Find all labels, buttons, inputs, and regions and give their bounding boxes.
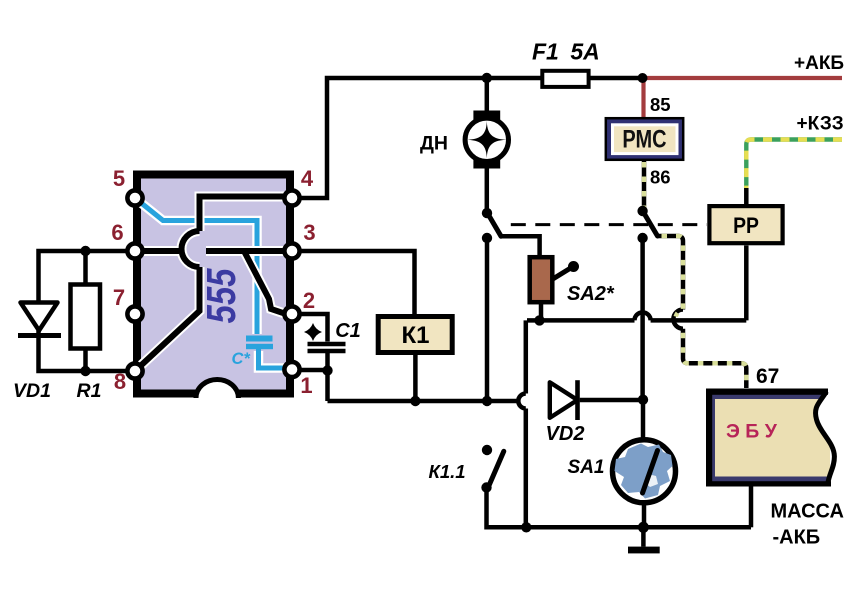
svg-text:К1.1: К1.1 bbox=[428, 461, 465, 482]
svg-text:3: 3 bbox=[303, 220, 315, 245]
svg-text:РМС: РМС bbox=[622, 125, 666, 153]
svg-text:4: 4 bbox=[301, 166, 314, 191]
svg-text:Э Б У: Э Б У bbox=[726, 421, 778, 443]
svg-text:SA2*: SA2* bbox=[567, 283, 615, 305]
svg-text:2: 2 bbox=[303, 288, 315, 313]
svg-text:8: 8 bbox=[114, 369, 126, 394]
svg-text:+АКБ: +АКБ bbox=[794, 53, 844, 74]
svg-text:1: 1 bbox=[300, 373, 312, 398]
svg-text:VD2: VD2 bbox=[546, 423, 585, 445]
svg-text:C*: C* bbox=[232, 350, 252, 368]
svg-text:C1: C1 bbox=[335, 320, 361, 342]
svg-text:67: 67 bbox=[756, 365, 779, 388]
svg-text:МАССА: МАССА bbox=[771, 501, 844, 523]
svg-text:-АКБ: -АКБ bbox=[773, 527, 821, 549]
svg-text:555: 555 bbox=[199, 268, 244, 323]
svg-text:+КЗЗ: +КЗЗ bbox=[797, 114, 844, 135]
svg-text:6: 6 bbox=[111, 220, 123, 245]
svg-text:85: 85 bbox=[650, 94, 671, 115]
svg-text:К1: К1 bbox=[402, 322, 430, 349]
svg-text:SA1: SA1 bbox=[568, 457, 605, 478]
svg-text:5: 5 bbox=[113, 166, 125, 191]
svg-text:РР: РР bbox=[733, 214, 759, 238]
svg-text:86: 86 bbox=[650, 166, 671, 187]
svg-text:ДН: ДН bbox=[420, 133, 448, 155]
svg-text:7: 7 bbox=[113, 285, 125, 310]
svg-text:R1: R1 bbox=[77, 380, 102, 402]
svg-text:VD1: VD1 bbox=[13, 380, 51, 402]
svg-text:F1 5A: F1 5A bbox=[532, 39, 600, 65]
